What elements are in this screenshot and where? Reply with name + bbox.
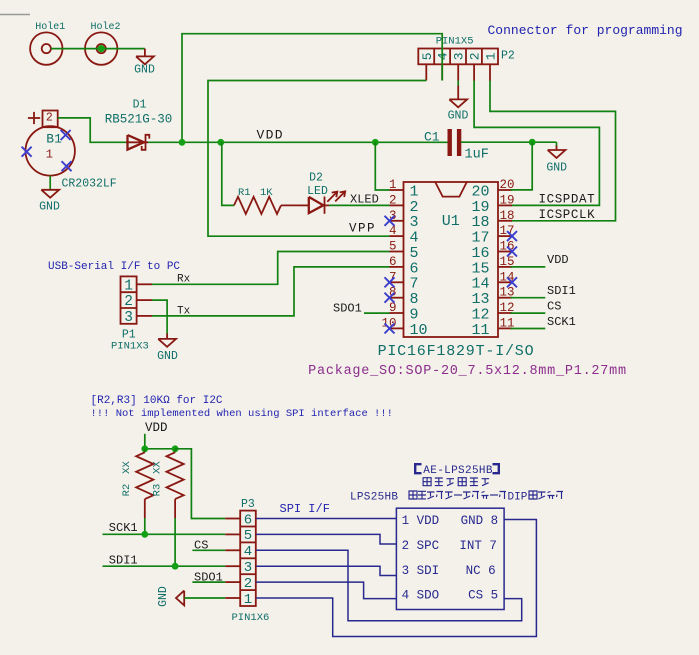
svg-text:USB-Serial I/F to PC: USB-Serial I/F to PC [48,261,180,273]
wire Rx P1.1 to U1 pin5 [152,252,390,285]
svg-text:CR2032LF: CR2032LF [62,178,117,191]
svg-text:5: 5 [420,52,435,60]
hole pad Hole2 [85,32,117,64]
svg-text:SDO1: SDO1 [194,570,223,584]
wire LED to U1 pin2 (XLED) [329,204,390,206]
svg-text:1: 1 [484,52,499,60]
svg-text:D1: D1 [133,99,147,112]
svg-text:1: 1 [124,278,133,294]
battery B1 CR2032LF [26,126,75,175]
wire U1 pin1 to VDD [375,142,389,190]
svg-text:SDI1: SDI1 [547,284,576,298]
svg-text:P2: P2 [501,50,515,63]
U1 no-connect marks [385,216,395,226]
svg-text:SCK1: SCK1 [547,315,576,329]
svg-text:4: 4 [389,224,397,238]
ground top-left [144,49,146,57]
module title AE-LPS25HB [415,464,421,473]
svg-text:!!! Not implemented when using: !!! Not implemented when using SPI inter… [91,408,393,420]
wire CS to P3.4 [192,549,225,551]
blue line P3.3 to module SDI [256,566,397,575]
svg-text:GND: GND [39,200,60,213]
wire U1 pin12 CS [511,312,546,314]
svg-text:Hole1: Hole1 [35,21,65,33]
wire P1.2 to ground [152,300,167,333]
svg-text:2: 2 [389,193,397,207]
wire U1 pin15 VDD [511,266,546,268]
svg-text:AE-LPS25HB: AE-LPS25HB [423,465,493,477]
sheet corner mark [0,14,30,16]
svg-text:D2: D2 [309,171,323,184]
connector P2 PIN1X5 [418,49,498,65]
svg-text:CS: CS [547,299,561,313]
svg-text:3: 3 [244,560,252,576]
wire D1 to VDD junction [148,141,182,143]
svg-text:Connector for programming: Connector for programming [488,23,683,38]
svg-text:2: 2 [244,576,252,592]
svg-text:5: 5 [389,240,397,254]
ground near C1 [548,150,566,158]
wire U1 pin13 SDI1 [511,297,546,299]
blue line P3.2 to module SDO [256,582,397,599]
svg-text:CS: CS [194,538,208,552]
blue line P3.1 to module GND8 [256,520,537,637]
svg-text:SPI I/F: SPI I/F [280,502,330,516]
svg-text:R1: R1 [238,187,251,199]
resistor R2 [144,449,146,453]
svg-text:2: 2 [46,112,53,125]
svg-text:2: 2 [124,294,133,310]
svg-text:6: 6 [389,255,397,269]
svg-text:VDD: VDD [257,127,284,142]
wire P2 pin2 to ICSPDAT [474,81,599,206]
P3 pin stubs [225,518,240,520]
op IC U1 PIC16F1829 [404,182,499,337]
svg-text:18: 18 [500,209,515,223]
svg-text:1: 1 [389,178,397,192]
svg-text:1: 1 [46,148,53,162]
wire SDO1 U1 pin9 [364,312,390,314]
svg-text:4 SDO: 4 SDO [402,589,440,603]
svg-text:RB521G-30: RB521G-30 [105,112,173,126]
blue line P3.6 to module VDD [256,518,397,520]
svg-text:ICSPCLK: ICSPCLK [539,208,596,222]
blue line P3.5 to module SPC [256,534,397,544]
svg-text:R2: R2 [121,484,133,497]
connector P3 PIN1X6 [240,511,256,606]
svg-text:LPS25HB: LPS25HB [350,492,398,504]
svg-text:XLED: XLED [350,193,379,207]
svg-text:LED: LED [307,185,328,198]
no-connect marks on B1 [61,130,71,140]
green pad dot Hole2 [98,45,105,52]
wire VDD rail bottom [145,448,175,450]
svg-text:PIN1X6: PIN1X6 [232,612,270,624]
svg-text:1K: 1K [260,187,273,199]
svg-text:4: 4 [436,52,451,60]
wire to P3 pin6 [175,449,225,519]
svg-text:GND: GND [546,162,567,175]
svg-text:R3: R3 [151,484,163,497]
svg-text:Rx: Rx [177,274,191,286]
P2 pin stubs [425,64,427,80]
connector P1 PIN1X3 [121,276,137,323]
svg-text:Tx: Tx [177,306,191,318]
wire C1 right to GND [461,141,557,143]
svg-text:GND: GND [157,350,178,363]
P1 pin stubs [137,283,152,285]
ground P3 pin1 (left) [176,591,184,606]
svg-text:3 SDI: 3 SDI [402,564,440,578]
module box AE-LPS25HB [396,508,504,609]
svg-text:CS 5: CS 5 [468,589,498,603]
svg-text:XX: XX [121,461,133,474]
wire B1 pin2 to D1 [58,118,126,142]
svg-text:ICSPDAT: ICSPDAT [539,193,596,207]
svg-text:INT 7: INT 7 [459,539,497,553]
svg-text:P3: P3 [241,498,255,511]
svg-text:GND 8: GND 8 [461,514,499,528]
wire P2 pin5 to VPP run [208,81,426,237]
svg-text:GND: GND [157,586,170,607]
svg-text:5: 5 [244,528,252,544]
wire P2 pin1 to ICSPCLK [490,81,616,221]
svg-text:PIC16F1829T-I/SO: PIC16F1829T-I/SO [378,343,535,360]
wire VDD to R1 [222,142,234,205]
svg-text:11: 11 [471,322,489,339]
U1 left pin stubs 1-10 [390,189,404,191]
svg-text:NC 6: NC 6 [466,564,496,578]
svg-text:XX: XX [151,461,163,474]
svg-text:9: 9 [389,301,397,315]
svg-text:2 SPC: 2 SPC [402,539,440,553]
wire SDI1 to P3.3 [103,565,226,567]
svg-text:SDI1: SDI1 [109,554,138,568]
svg-text:Hole2: Hole2 [90,21,120,33]
hole pad Hole1 [30,32,62,64]
ground P1 [158,339,176,347]
svg-text:Package_SO:SOP-20_7.5x12.8mm_P: Package_SO:SOP-20_7.5x12.8mm_P1.27mm [308,364,627,379]
plus sign [28,117,40,119]
wire U1 pin11 SCK1 [511,328,546,330]
svg-text:10: 10 [410,322,428,339]
wire to U1 pin20 VSS [511,142,533,190]
svg-text:1 VDD: 1 VDD [402,514,440,528]
svg-text:VDD: VDD [145,421,168,435]
svg-text:1: 1 [244,592,252,608]
svg-text:19: 19 [500,193,515,207]
svg-text:6: 6 [244,512,252,528]
svg-text:SDO1: SDO1 [333,301,362,315]
resistor R3 [174,449,176,453]
svg-text:C1: C1 [424,129,440,144]
svg-text:1uF: 1uF [465,147,489,162]
wire VDD to P2 pin4 [182,34,442,143]
svg-text:P1: P1 [122,328,136,341]
svg-text:4: 4 [244,544,252,560]
svg-text:3: 3 [452,52,467,60]
svg-text:DIP: DIP [508,492,528,504]
node VDD junctions [179,139,186,146]
svg-text:SCK1: SCK1 [109,521,138,535]
svg-text:VPP: VPP [349,222,376,236]
wire Hole1 to GND [51,48,145,50]
svg-text:U1: U1 [442,213,460,230]
U1 right pin stubs 20-11 [498,189,512,191]
wire SCK1 to P3.5 [103,533,226,535]
svg-text:B1: B1 [46,132,62,147]
wire VDD rail [182,141,448,143]
svg-text:GND: GND [134,63,155,76]
kanji line (pseudo glyphs) [423,478,431,486]
wire B1 pin1 to ground [49,176,51,190]
svg-text:GND: GND [448,110,469,123]
svg-text:PIN1X3: PIN1X3 [111,340,149,352]
svg-text:3: 3 [124,310,133,326]
blue line P3.4 to module CS5 [256,550,522,620]
ground P2 pin3 [457,81,459,86]
svg-text:[R2,R3] 10KΩ for I2C: [R2,R3] 10KΩ for I2C [91,395,223,407]
LED arrows [327,192,337,202]
svg-text:VDD: VDD [547,253,569,267]
ground B1 [41,190,59,198]
wire SDO1 to P3.2 [192,581,225,583]
svg-text:2: 2 [468,52,483,60]
wire VDD down [144,434,146,449]
wire Tx P1.3 to U1 pin6 [152,267,390,316]
